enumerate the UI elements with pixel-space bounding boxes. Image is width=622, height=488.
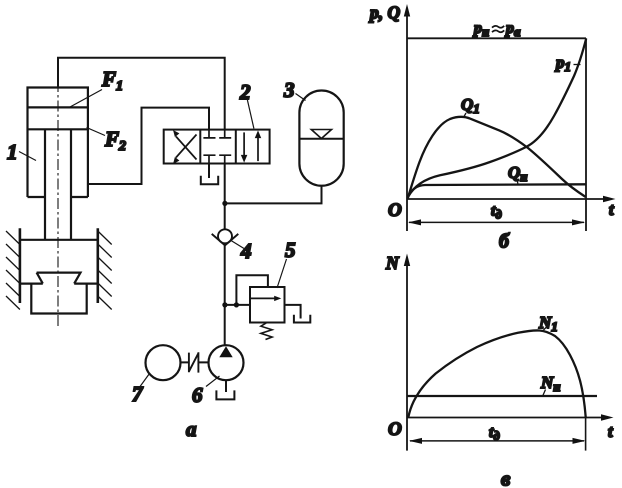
wire: pipe cylinder top to valve port B bbox=[58, 58, 225, 130]
leader 6 bbox=[206, 376, 220, 387]
svg-text:2: 2 bbox=[239, 80, 251, 104]
right boundary line bbox=[585, 38, 587, 231]
piston rod bbox=[45, 129, 71, 240]
node: relief branch bbox=[222, 302, 227, 307]
svg-text:7: 7 bbox=[132, 382, 144, 406]
svg-text:3: 3 bbox=[283, 78, 295, 102]
wire: pipe rod side to valve port A bbox=[88, 108, 209, 184]
valve left position crossed arrows bbox=[174, 131, 197, 163]
valve tank stub bbox=[208, 164, 210, 179]
axis N vertical bbox=[406, 266, 408, 451]
electric motor 7 circle bbox=[146, 345, 181, 380]
leader 5 bbox=[277, 259, 287, 288]
pump 6 circle bbox=[209, 345, 244, 380]
tank symbol under valve bbox=[201, 176, 218, 184]
svg-text:Q1: Q1 bbox=[461, 95, 480, 116]
GRAPH B bbox=[368, 3, 616, 253]
svg-text:а: а bbox=[186, 417, 197, 441]
svg-text:tд: tд bbox=[491, 203, 502, 222]
svg-text:p1: p1 bbox=[554, 53, 571, 74]
svg-text:O: O bbox=[388, 419, 402, 440]
left guide wall bbox=[19, 228, 22, 303]
piston (F1/F2 faces) bbox=[28, 107, 88, 129]
svg-text:F1: F1 bbox=[101, 67, 123, 94]
valve centre position closed ports bbox=[203, 130, 231, 164]
valve section dividers bbox=[200, 130, 236, 164]
relief valve 5 body bbox=[250, 287, 285, 323]
cylinder bottom closures bbox=[28, 196, 88, 198]
svg-text:O: O bbox=[388, 200, 402, 221]
relief valve drain line bbox=[285, 305, 301, 319]
leader 4 bbox=[231, 241, 244, 249]
valve right position straight arrows bbox=[242, 132, 261, 162]
svg-text:Nн: Nн bbox=[540, 373, 561, 394]
svg-text:pн: pн bbox=[472, 20, 489, 39]
tick Nn bbox=[543, 390, 546, 396]
centerline (dash-dot) bbox=[57, 81, 59, 326]
relief valve spring bbox=[261, 323, 272, 340]
cylinder U1 body bbox=[28, 88, 88, 198]
directional valve 2 body bbox=[164, 130, 270, 164]
coupling symbol bbox=[189, 352, 199, 372]
leader F1 bbox=[70, 90, 102, 108]
svg-text:N: N bbox=[385, 253, 400, 273]
svg-text:tд: tд bbox=[489, 424, 500, 443]
leader F2 bbox=[87, 128, 106, 136]
node: pilot junction bbox=[234, 302, 239, 307]
curve N1 bbox=[408, 330, 585, 417]
shaft wire motor to pump bbox=[181, 361, 209, 363]
line Nn level bbox=[407, 395, 597, 397]
svg-text:t: t bbox=[608, 422, 613, 441]
svg-text:t: t bbox=[609, 200, 614, 219]
axis t horizontal bbox=[407, 417, 602, 419]
svg-text:б: б bbox=[499, 231, 510, 253]
press ram block top bbox=[20, 239, 98, 241]
leader 1 bbox=[19, 152, 36, 161]
curve Qn bbox=[408, 184, 586, 197]
dovetail die tongue bbox=[37, 273, 81, 284]
curve Q1 bbox=[408, 117, 586, 199]
leader 7 bbox=[138, 374, 150, 391]
tick N1 bbox=[544, 327, 548, 331]
pump tank stub bbox=[225, 380, 227, 392]
svg-text:1: 1 bbox=[7, 140, 18, 164]
svg-text:5: 5 bbox=[285, 238, 296, 262]
lower die block bbox=[31, 284, 86, 314]
svg-text:pа: pа bbox=[504, 20, 521, 39]
svg-text:F2: F2 bbox=[104, 127, 126, 154]
tick Q1 bbox=[464, 113, 467, 118]
relief valve flow arrow bbox=[250, 297, 277, 299]
curve p1 bbox=[408, 39, 586, 198]
wire: pressure line valve to pump bbox=[224, 164, 226, 346]
leader 2 bbox=[247, 100, 254, 129]
duration dimension line bbox=[410, 440, 584, 442]
svg-text:N1: N1 bbox=[538, 313, 558, 334]
duration dimension line bbox=[409, 221, 584, 223]
line pn=pa level bbox=[407, 37, 586, 39]
GRAPH V bbox=[385, 253, 614, 488]
check valve 4 ball bbox=[218, 229, 232, 243]
ram bottom face bbox=[20, 283, 98, 285]
svg-text:p, Q: p, Q bbox=[368, 3, 401, 23]
leader 3 bbox=[296, 94, 306, 101]
accumulator gas triangle bbox=[311, 130, 331, 139]
pump outlet triangle bbox=[219, 346, 232, 357]
svg-text:6: 6 bbox=[192, 383, 203, 407]
wire: branch to relief valve 5 bbox=[225, 304, 250, 306]
accumulator 3 shell bbox=[299, 91, 343, 186]
approx sign bbox=[492, 26, 504, 32]
node: accumulator branch bbox=[222, 201, 227, 206]
tank symbol under pump bbox=[216, 390, 234, 399]
tick p1 bbox=[574, 64, 581, 66]
check valve 4 seat bbox=[212, 234, 239, 246]
accumulator divider bbox=[299, 138, 343, 140]
axis pQ vertical bbox=[406, 16, 408, 231]
left wall hatching bbox=[6, 231, 20, 310]
right wall hatching bbox=[98, 231, 112, 310]
tank symbol at relief drain bbox=[294, 315, 310, 323]
right guide wall bbox=[97, 228, 100, 303]
svg-text:в: в bbox=[501, 467, 511, 488]
relief valve 5 pilot line bbox=[236, 275, 268, 305]
svg-text:4: 4 bbox=[240, 239, 252, 263]
right boundary below axis bbox=[585, 418, 587, 451]
wire: accumulator branch bbox=[225, 186, 322, 204]
axis t horizontal bbox=[407, 198, 604, 200]
tick Qn bbox=[517, 180, 518, 185]
